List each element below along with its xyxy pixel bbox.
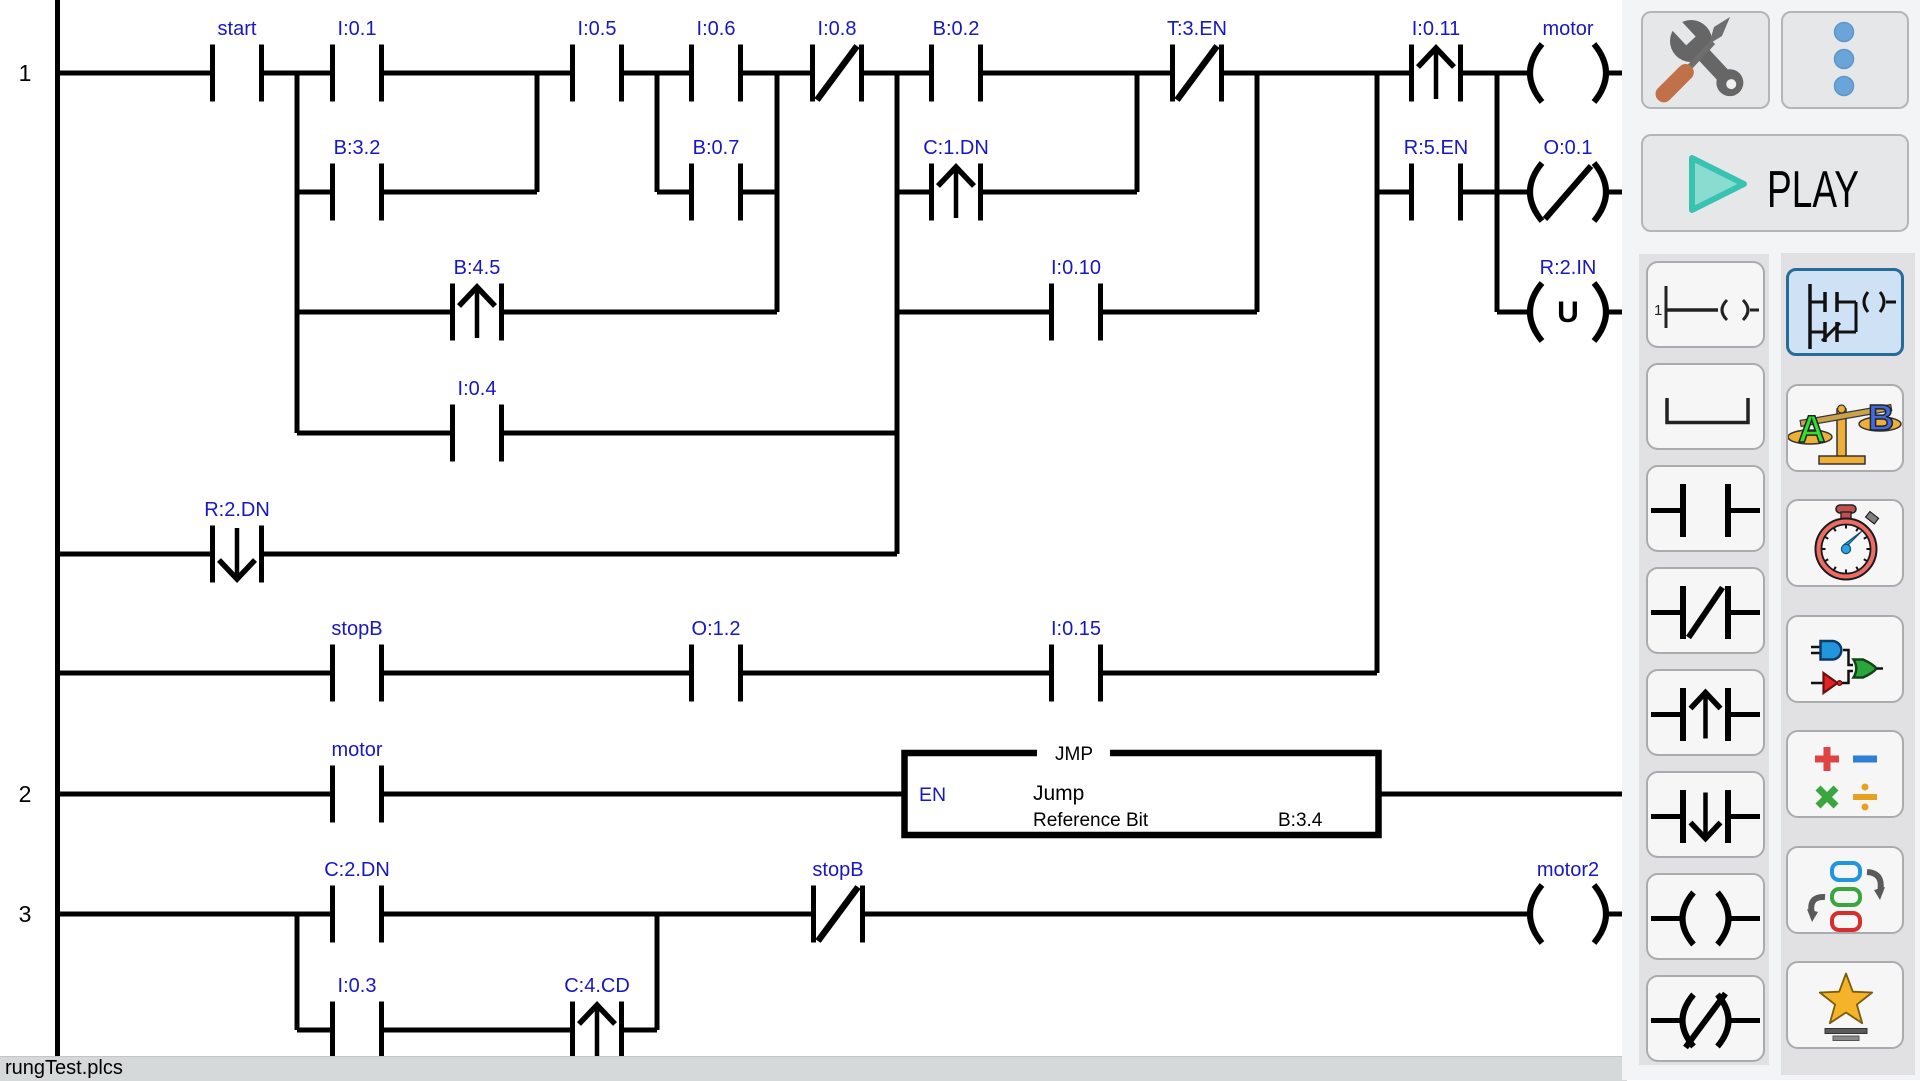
svg-text:B:0.2: B:0.2 [933, 18, 980, 40]
svg-text:C:2.DN: C:2.DN [324, 859, 390, 881]
svg-text:U: U [1557, 296, 1579, 329]
svg-text:O:0.1: O:0.1 [1544, 137, 1593, 159]
svg-text:I:0.10: I:0.10 [1051, 257, 1101, 279]
svg-text:motor: motor [331, 739, 382, 761]
svg-text:R:5.EN: R:5.EN [1404, 137, 1468, 159]
svg-text:2: 2 [19, 781, 32, 807]
svg-text:motor2: motor2 [1537, 859, 1599, 881]
svg-text:stopB: stopB [812, 859, 863, 881]
svg-text:T:3.EN: T:3.EN [1167, 18, 1227, 40]
svg-text:B: B [1868, 397, 1894, 438]
svg-text:EN: EN [919, 784, 946, 806]
svg-text:Reference Bit: Reference Bit [1033, 810, 1149, 831]
svg-text:stopB: stopB [331, 618, 382, 640]
svg-text:A: A [1798, 409, 1825, 451]
svg-text:I:0.3: I:0.3 [338, 975, 377, 997]
svg-text:R:2.IN: R:2.IN [1540, 257, 1597, 279]
svg-text:JMP: JMP [1055, 744, 1093, 765]
svg-text:C:4.CD: C:4.CD [564, 975, 630, 997]
svg-text:I:0.8: I:0.8 [818, 18, 857, 40]
svg-text:PLAY: PLAY [1767, 161, 1859, 219]
svg-text:1: 1 [19, 60, 32, 86]
svg-text:start: start [218, 18, 257, 40]
svg-text:1: 1 [1654, 302, 1662, 319]
svg-text:I:0.11: I:0.11 [1412, 18, 1461, 40]
svg-text:Jump: Jump [1033, 782, 1084, 805]
svg-text:B:3.4: B:3.4 [1278, 810, 1323, 831]
svg-text:I:0.1: I:0.1 [338, 18, 377, 40]
svg-text:motor: motor [1542, 18, 1593, 40]
svg-text:3: 3 [19, 901, 32, 927]
svg-text:I:0.6: I:0.6 [697, 18, 736, 40]
svg-text:B:3.2: B:3.2 [334, 137, 381, 159]
svg-text:B:4.5: B:4.5 [454, 257, 501, 279]
svg-text:I:0.4: I:0.4 [458, 378, 497, 400]
svg-text:C:1.DN: C:1.DN [923, 137, 989, 159]
svg-text:I:0.5: I:0.5 [578, 18, 617, 40]
svg-text:I:0.15: I:0.15 [1051, 618, 1101, 640]
svg-text:O:1.2: O:1.2 [692, 618, 741, 640]
svg-text:B:0.7: B:0.7 [693, 137, 740, 159]
svg-text:R:2.DN: R:2.DN [204, 499, 270, 521]
